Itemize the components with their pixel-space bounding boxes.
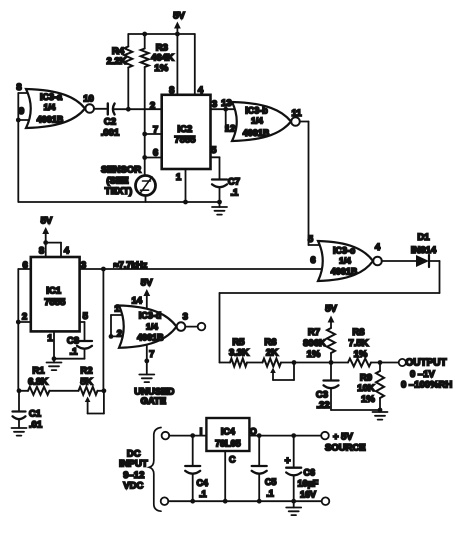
svg-text:R8: R8 — [352, 327, 364, 338]
capacitor C1 .01 — [13, 391, 43, 431]
pin 13 label — [221, 98, 232, 109]
svg-text:78L05: 78L05 — [215, 439, 241, 449]
svg-text:5: 5 — [211, 145, 217, 156]
wire IC2 pin 5 to C7 — [211, 157, 220, 179]
svg-text:1/4: 1/4 — [251, 116, 263, 126]
svg-text:IC2: IC2 — [177, 124, 192, 135]
svg-text:1/4: 1/4 — [44, 102, 56, 112]
svg-text:C4: C4 — [196, 478, 208, 488]
capacitor C4 .1 — [185, 436, 208, 502]
wire input rail to IC4 — [169, 433, 206, 438]
svg-text:≈7.7kHz: ≈7.7kHz — [114, 260, 148, 270]
svg-text:GATE: GATE — [140, 396, 166, 407]
pin 14 label — [132, 295, 143, 306]
node ~7.7kHz label — [114, 260, 148, 270]
resistor R3 — [141, 34, 174, 74]
svg-text:C1: C1 — [29, 409, 42, 420]
IC4 pin C label — [229, 455, 236, 465]
svg-text:.001: .001 — [101, 128, 120, 139]
capacitor C7 .1 — [212, 177, 240, 203]
svg-text:3: 3 — [212, 99, 217, 110]
ground at IC1 pin 1 — [47, 359, 62, 370]
svg-text:6.8K: 6.8K — [28, 377, 48, 388]
resistor R8 7.5K 1% — [331, 327, 399, 367]
svg-text:10: 10 — [83, 94, 94, 105]
svg-text:R7: R7 — [308, 327, 320, 338]
NOR gate IC3-b input bracket pin 12 — [226, 109, 238, 131]
svg-text:IC3-a: IC3-a — [40, 92, 63, 102]
pin 6 label IC3-c — [310, 255, 315, 266]
svg-text:1%: 1% — [154, 63, 168, 74]
svg-text:IC4: IC4 — [221, 427, 235, 437]
wire IC3-b output to IC3-c pin 5 — [300, 122, 322, 246]
svg-text:C: C — [229, 455, 236, 465]
ground under C7 — [212, 202, 227, 215]
svg-text:5V: 5V — [173, 11, 185, 22]
NOR gate IC3-d input bracket pins 1,2 — [109, 315, 125, 339]
wire output rail to +5V — [249, 433, 321, 438]
svg-text:0 –100%RH: 0 –100%RH — [401, 380, 452, 391]
wire IC2 pin 7 stub — [145, 133, 162, 135]
svg-text:SOURCE: SOURCE — [325, 442, 366, 453]
svg-text:4: 4 — [64, 246, 70, 257]
pin 3 label — [183, 312, 188, 323]
svg-text:5K: 5K — [80, 377, 92, 388]
svg-text:2K: 2K — [266, 348, 278, 359]
svg-text:1%: 1% — [354, 349, 368, 360]
wire IC1 pin 1 stub — [52, 331, 57, 361]
wire IC1 pin 5 to C8 — [80, 322, 85, 341]
svg-text:3.3K: 3.3K — [229, 348, 249, 359]
diode D1 IN914 — [411, 232, 437, 267]
svg-text:16V: 16V — [300, 489, 316, 499]
capacitor C5 .1 — [252, 436, 277, 502]
svg-text:4001B: 4001B — [243, 128, 270, 138]
svg-text:7: 7 — [149, 349, 154, 360]
svg-text:R6: R6 — [264, 337, 276, 348]
pin 5 label IC3-c — [308, 234, 314, 245]
pin 4 label — [375, 242, 381, 253]
svg-text:.01: .01 — [29, 420, 43, 431]
op gate IC3-b (NOR 1/4 4001B) — [232, 102, 300, 141]
pin 7 label — [149, 349, 154, 360]
svg-text:IN914: IN914 — [411, 245, 437, 256]
ground at IC3-d pin 7 — [139, 375, 154, 383]
wire IC2 pin 1 stub — [185, 169, 187, 202]
svg-text:VDC: VDC — [123, 481, 143, 492]
IC1 pin 8,4 labels — [39, 246, 70, 257]
op gate IC3-d unused (NOR 1/4 4001B) — [119, 306, 185, 348]
svg-text:0 –1V: 0 –1V — [410, 369, 435, 380]
svg-text:C5: C5 — [265, 477, 277, 487]
wire IC1 pin 6 / pin 2 left bus — [16, 269, 31, 391]
svg-text:IC3-b: IC3-b — [245, 106, 268, 116]
IC1 7555 timer — [31, 257, 80, 331]
humidity sensor (SEE TEXT) — [101, 165, 156, 198]
svg-text:TEXT): TEXT) — [105, 186, 132, 197]
svg-text:2: 2 — [150, 101, 155, 112]
svg-text:7555: 7555 — [174, 135, 196, 146]
svg-text:13: 13 — [221, 98, 232, 109]
wire 5V to IC2 pin 4 — [194, 34, 196, 95]
svg-text:12: 12 — [225, 124, 236, 135]
capacitor C6 10uF 16V electrolytic — [285, 436, 319, 502]
pin 1 label — [114, 303, 120, 314]
svg-text:C7: C7 — [228, 177, 240, 188]
ground under R9 — [373, 412, 388, 420]
pin 12 label — [225, 124, 236, 135]
svg-text:8: 8 — [16, 82, 21, 93]
wire IC3-a inputs feedback down — [17, 120, 19, 202]
potentiometer R2 5K — [79, 366, 107, 414]
resistor R9 10K 1% — [357, 363, 384, 413]
svg-text:7.5K: 7.5K — [348, 338, 368, 349]
svg-text:.1: .1 — [199, 489, 207, 499]
svg-text:.1: .1 — [70, 347, 79, 358]
pin 8 label — [16, 82, 21, 93]
svg-text:4001B: 4001B — [331, 267, 358, 277]
op gate IC3-a (NOR 1/4 4001B) — [26, 89, 94, 128]
power 5V top rail — [128, 11, 195, 37]
svg-text:INPUT: INPUT — [119, 459, 148, 470]
svg-text:IC1: IC1 — [46, 285, 62, 296]
svg-text:4: 4 — [198, 85, 204, 96]
svg-text:11: 11 — [291, 108, 302, 119]
wire D1 to output divider rail — [220, 261, 440, 363]
resistor R5 3.3K — [220, 337, 250, 367]
pin 10 label — [83, 94, 94, 105]
ground under C1 — [12, 428, 27, 436]
svg-text:IC3-d: IC3-d — [139, 311, 162, 321]
DC INPUT 9-12 VDC label — [119, 449, 148, 492]
svg-text:(SEE: (SEE — [106, 176, 128, 187]
UNUSED GATE label — [134, 387, 174, 408]
svg-text:7555: 7555 — [44, 297, 66, 308]
svg-text:3: 3 — [183, 312, 188, 323]
+5V SOURCE terminal — [321, 431, 365, 453]
DC input + terminal — [162, 432, 170, 440]
wire IC3-a output to C2 — [94, 108, 107, 110]
wire C2 to IC2 pin 2, node with R4 — [115, 107, 162, 112]
IC4 78L05 regulator — [206, 418, 249, 451]
svg-text:1: 1 — [47, 333, 53, 344]
svg-text:1%: 1% — [361, 394, 375, 405]
svg-text:OUTPUT: OUTPUT — [406, 358, 447, 369]
svg-text:4001B: 4001B — [137, 332, 164, 342]
wire rail R1-R2 — [17, 388, 79, 393]
svg-text:5: 5 — [308, 234, 314, 245]
svg-text:1/4: 1/4 — [339, 256, 351, 266]
wire IC3-c output to D1 — [382, 260, 416, 262]
OUTPUT terminal — [399, 358, 453, 391]
IC1 pin labels — [22, 260, 89, 344]
svg-text:5V: 5V — [141, 278, 153, 289]
svg-text:5V: 5V — [41, 216, 53, 227]
svg-text:5: 5 — [83, 311, 89, 322]
pin 11 label — [291, 108, 302, 119]
svg-text:2: 2 — [117, 329, 122, 340]
wire IC3-d output to open terminal — [185, 323, 205, 331]
IC2 7555 timer — [162, 95, 211, 169]
svg-text:I: I — [200, 427, 203, 437]
IC2 pin labels — [150, 85, 217, 183]
svg-text:1/4: 1/4 — [146, 322, 158, 332]
resistor R4 — [106, 34, 132, 109]
IC4 pin O label — [250, 427, 257, 437]
svg-text:10µF: 10µF — [298, 478, 319, 488]
DC input - terminal — [161, 497, 169, 505]
svg-text:R5: R5 — [232, 337, 245, 348]
svg-text:6: 6 — [310, 255, 315, 266]
IC4 pin I label — [200, 427, 203, 437]
svg-text:C8: C8 — [67, 336, 79, 347]
svg-text:.1: .1 — [266, 489, 274, 499]
op gate IC3-c (NOR 1/4 4001B) — [318, 241, 382, 281]
svg-text:4001B: 4001B — [37, 115, 64, 125]
svg-text:10K: 10K — [357, 383, 375, 394]
wire IC2 pin 3 to IC3-b pin 13 — [211, 107, 239, 112]
svg-text:C6: C6 — [304, 467, 316, 477]
svg-text:2.2K: 2.2K — [106, 56, 126, 67]
svg-text:9: 9 — [19, 106, 24, 117]
wire IC3-d pin 7 to ground — [144, 345, 149, 375]
potentiometer R6 2K — [247, 337, 331, 380]
capacitor C3 .22 — [316, 363, 380, 412]
svg-text:R2: R2 — [80, 366, 92, 377]
pin 2 label — [117, 329, 122, 340]
resistor R1 6.8K — [28, 366, 49, 395]
svg-text:C2: C2 — [104, 117, 116, 128]
wire ground rail bottom — [168, 499, 321, 504]
svg-text:SENSOR: SENSOR — [101, 165, 141, 176]
capacitor C2 .001 — [101, 104, 120, 139]
svg-text:.1: .1 — [230, 188, 239, 199]
wire IC1 pin 3 output ~7.7kHz — [80, 267, 322, 272]
svg-text:+ 5V: + 5V — [333, 431, 353, 442]
svg-text:C3: C3 — [316, 390, 328, 401]
power 5V at IC3-d pin 14 — [141, 278, 153, 310]
svg-text:.22: .22 — [316, 400, 329, 411]
svg-text:2: 2 — [22, 311, 27, 322]
svg-text:+: + — [285, 456, 291, 467]
svg-text:806K: 806K — [303, 338, 326, 349]
power 5V at IC1 — [41, 216, 61, 258]
wire IC4 common stub — [224, 451, 226, 501]
DC INPUT brace — [149, 428, 161, 512]
svg-text:4: 4 — [375, 242, 381, 253]
wire pin3 node down to R2 wiper rail — [102, 269, 104, 391]
ground at supply — [286, 501, 301, 515]
svg-text:R9: R9 — [360, 373, 372, 384]
wire 5V to IC2 pin 8 — [176, 34, 178, 95]
svg-text:5V: 5V — [325, 304, 337, 315]
wire IC2 pin 6 stub — [145, 157, 162, 159]
resistor R7 806K 1% — [303, 327, 335, 365]
wire sensor bottom / IC2 pin1 / ground bus — [19, 196, 222, 205]
power 5V at R7 — [325, 304, 337, 329]
bottom-right return terminal — [322, 497, 330, 505]
svg-text:14: 14 — [132, 295, 143, 306]
svg-text:IC3-c: IC3-c — [333, 246, 355, 256]
pin 9 label — [19, 106, 24, 117]
wire R3 to pins 7/6 and sensor — [142, 67, 147, 176]
svg-text:8: 8 — [39, 246, 44, 257]
svg-text:D1: D1 — [417, 232, 430, 243]
svg-text:8: 8 — [169, 85, 174, 96]
svg-text:1: 1 — [176, 172, 182, 183]
svg-text:R1: R1 — [32, 366, 45, 377]
NOR gate IC3-a input bracket pins 8,9 — [16, 93, 32, 122]
capacitor C8 .1 — [54, 336, 92, 359]
svg-text:1%: 1% — [307, 349, 321, 360]
